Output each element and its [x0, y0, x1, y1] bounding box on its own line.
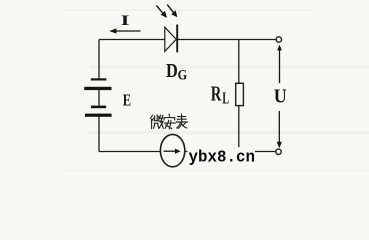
svg-text:ybx8.cn: ybx8.cn	[189, 149, 256, 168]
svg-text:E: E	[123, 90, 131, 109]
label weianbiao (微安表) drawn strokes	[150, 114, 187, 129]
microammeter body	[160, 134, 184, 166]
battery E plates	[84, 78, 111, 116]
photodiode DG cathode bar	[176, 25, 178, 53]
resistor RL box	[236, 83, 244, 105]
photodiode DG triangle	[165, 27, 176, 51]
char wei	[150, 115, 163, 129]
svg-text:G: G	[178, 68, 188, 84]
current arrow I	[109, 28, 140, 33]
svg-text:D: D	[166, 60, 178, 82]
wire left vertical	[98, 40, 100, 79]
terminal top right	[276, 37, 281, 42]
char biao	[176, 114, 188, 128]
svg-text:L: L	[222, 89, 229, 108]
light arrow 2	[167, 5, 177, 18]
svg-text:R: R	[211, 82, 222, 106]
wire top: diode to right terminal	[177, 39, 276, 41]
char an	[164, 114, 175, 129]
svg-text:I: I	[121, 13, 130, 29]
U arrow down	[277, 111, 282, 148]
wire battery mid stub	[98, 90, 100, 106]
wire top: left corner to diode	[99, 39, 165, 41]
wire bottom right	[185, 151, 276, 153]
watermark background	[188, 147, 256, 165]
microammeter needle arrow	[164, 149, 181, 154]
wire bottom left	[99, 151, 161, 153]
terminal bottom right	[276, 149, 281, 154]
wire left lower vertical	[98, 117, 100, 152]
U arrow up	[277, 45, 282, 83]
svg-text:U: U	[274, 85, 287, 107]
wire RL branch lower	[238, 106, 240, 152]
wire RL branch upper	[238, 40, 240, 84]
light arrow 1	[156, 5, 167, 18]
